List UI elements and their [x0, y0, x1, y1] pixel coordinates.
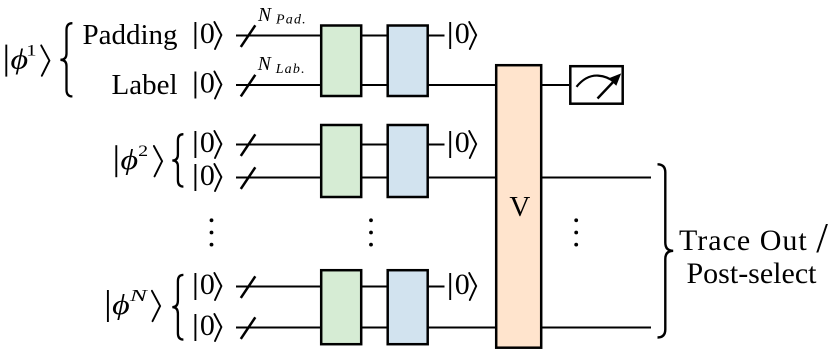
svg-text:ϕ: ϕ — [112, 290, 130, 321]
svg-text:N: N — [128, 286, 149, 305]
ellipsis dots middle column — [369, 218, 373, 246]
group brace 2 (left curly) — [172, 134, 183, 186]
meter needle — [598, 80, 616, 99]
bus slash on w4 — [241, 167, 256, 189]
ket |0> output on w5 — [450, 268, 476, 301]
ket |0> on w5 input — [195, 268, 221, 301]
ellipsis dots left column — [210, 218, 214, 246]
ket |0> on w4 input — [195, 159, 221, 192]
meter arc — [577, 76, 615, 87]
gate G2 (green box, group 2) — [321, 125, 361, 197]
wire w6 (group N lower bus) — [236, 327, 651, 329]
ket |0> on w1 input — [195, 17, 221, 50]
state label |phi^2> — [116, 143, 162, 177]
gate B2 (blue box, group 2) — [388, 125, 428, 197]
gate B1 (blue box, group 1) — [388, 26, 428, 97]
state label |phi^1> — [6, 42, 49, 76]
svg-text:2: 2 — [138, 143, 148, 160]
gate BN (blue box, group N) — [388, 270, 428, 344]
svg-text:Pad.: Pad. — [275, 13, 307, 28]
bus slash on w1 — [241, 25, 256, 47]
bus slash on w6 — [241, 317, 256, 339]
svg-text:Padding: Padding — [82, 19, 177, 51]
trace-out brace (right curly) — [658, 164, 674, 337]
ket |0> on w3 input — [195, 126, 221, 159]
wire w4 (group 2 lower bus) — [236, 177, 651, 179]
bus slash on w5 — [241, 276, 256, 298]
wire w1 (Padding qubit bus) — [236, 35, 445, 37]
group brace N (left curly) — [172, 275, 183, 340]
svg-text:N: N — [257, 5, 272, 26]
wire w3 (group 2 upper bus) — [236, 144, 445, 146]
gate G1 (green box, group 1) — [321, 26, 361, 97]
svg-text:1: 1 — [26, 42, 36, 59]
ellipsis dots right column — [574, 218, 578, 246]
bus slash on w2 — [241, 75, 256, 97]
meter needle arrowhead — [609, 73, 622, 85]
gate GN (green box, group N) — [321, 270, 361, 344]
wire w5 (group N upper bus) — [236, 286, 445, 288]
svg-text:Lab.: Lab. — [275, 62, 306, 77]
svg-text:V: V — [509, 191, 530, 223]
bus slash on w3 — [241, 134, 256, 156]
wire w2 (Label qubit bus) — [236, 84, 569, 86]
group brace 1 (left curly) — [60, 23, 72, 96]
ket |0> output on w3 — [450, 126, 476, 159]
svg-text:ϕ: ϕ — [121, 145, 139, 176]
svg-text:N: N — [257, 54, 272, 75]
unitary V (tall peach box) — [496, 65, 541, 348]
ket |0> output on w1 — [450, 17, 476, 50]
ket |0> on w2 input — [195, 67, 221, 100]
svg-text:Label: Label — [111, 69, 177, 101]
ket |0> on w6 input — [195, 309, 221, 342]
state label |phi^N> — [108, 286, 160, 322]
measurement box — [570, 66, 622, 104]
svg-text:Post-select: Post-select — [687, 257, 818, 290]
